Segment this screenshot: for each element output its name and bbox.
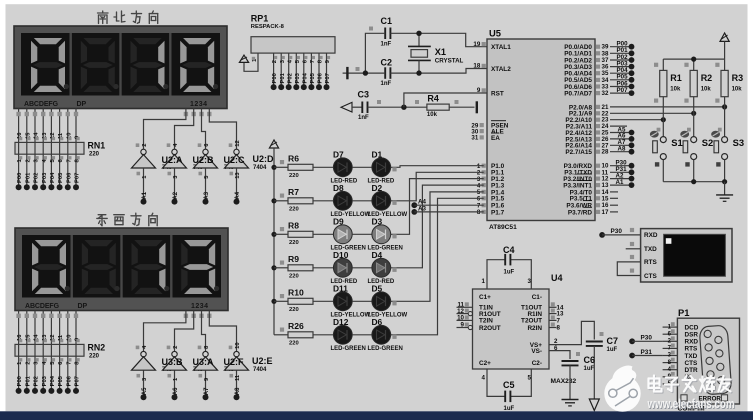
wire R7 to D8 — [313, 200, 333, 202]
LED D6 LED-GREEN — [368, 317, 403, 352]
svg-text:C2-: C2- — [532, 360, 542, 367]
watermark text dianzifashaoyou — [649, 376, 732, 393]
wire switch bottoms common — [663, 179, 727, 184]
svg-text:P31: P31 — [641, 349, 653, 356]
svg-text:RN1: RN1 — [88, 141, 106, 151]
svg-text:10k: 10k — [670, 87, 681, 93]
svg-text:A3: A3 — [204, 191, 210, 199]
svg-text:RN2: RN2 — [88, 343, 106, 353]
wire P30 to P1 RXD — [629, 335, 662, 345]
svg-text:S1: S1 — [671, 137, 682, 148]
svg-text:R6: R6 — [288, 154, 299, 164]
svg-text:P01: P01 — [25, 375, 31, 386]
svg-text:CRYSTAL: CRYSTAL — [435, 58, 464, 65]
svg-text:P07: P07 — [325, 73, 331, 83]
LED D4 LED-RED — [368, 250, 395, 285]
svg-text:10k: 10k — [732, 87, 743, 93]
label U2:E 7404 — [252, 356, 273, 373]
svg-text:S2: S2 — [702, 137, 713, 148]
svg-text:U2:F: U2:F — [224, 357, 245, 367]
wire R6 to D7 — [313, 166, 333, 168]
wire R26 to D12 — [313, 334, 333, 336]
svg-text:R2OUT: R2OUT — [479, 325, 501, 332]
svg-text:DSR: DSR — [685, 332, 699, 339]
svg-text:P30: P30 — [641, 335, 653, 342]
svg-text:P04: P04 — [50, 172, 56, 183]
svg-text:P03: P03 — [42, 375, 48, 386]
svg-text:9: 9 — [461, 322, 465, 329]
capacitor C7 1uF — [586, 332, 618, 353]
wire D8 to D2 — [352, 200, 372, 202]
svg-text:RST: RST — [491, 90, 504, 97]
pushbutton switch S3 — [711, 128, 744, 182]
LED D10 LED-RED — [331, 250, 358, 285]
svg-text:R7: R7 — [288, 187, 299, 197]
svg-text:P3.7/RD: P3.7/RD — [568, 209, 593, 216]
U5 P0 port net stubs P00-P07 — [610, 41, 634, 97]
svg-text:2: 2 — [173, 346, 179, 349]
svg-text:P1: P1 — [678, 307, 689, 318]
junction node C2-X1 — [416, 70, 421, 75]
svg-text:P01: P01 — [25, 172, 31, 183]
svg-text:4: 4 — [482, 375, 486, 382]
svg-text:220: 220 — [289, 307, 299, 313]
U5 P3.0-P3.3 net stubs P30 P31 A2 A1 — [610, 160, 634, 189]
svg-text:CTS: CTS — [685, 360, 699, 367]
svg-text:A8: A8 — [235, 387, 241, 395]
svg-text:U2:C: U2:C — [224, 155, 246, 165]
svg-text:P00: P00 — [17, 173, 23, 183]
power terminal above U2:D rail — [269, 140, 278, 148]
virtual terminal box — [641, 229, 732, 282]
mcu U5 AT89C51 body — [487, 28, 595, 231]
svg-text:U3:B: U3:B — [162, 357, 184, 367]
connector P1 COMPIM DB9 — [677, 307, 739, 413]
svg-text:10: 10 — [235, 342, 241, 348]
svg-text:RESPACK-8: RESPACK-8 — [251, 24, 285, 30]
svg-text:A7: A7 — [204, 387, 210, 395]
capacitor C3 1nF — [358, 89, 382, 121]
svg-text:T2OUT: T2OUT — [521, 318, 542, 325]
svg-text:P06: P06 — [66, 172, 72, 183]
wire LED row 3 to U5 P1.2 — [391, 179, 484, 239]
svg-text:P01: P01 — [280, 72, 286, 83]
svg-text:9: 9 — [477, 87, 481, 94]
U5 left pin numbers and pin squares — [471, 41, 485, 216]
svg-text:U2:E: U2:E — [252, 356, 273, 366]
wire D9 to D3 — [352, 233, 372, 235]
wire C2 right to XTAL2 — [390, 69, 486, 74]
wire LED row 5 to U5 P1.4 — [391, 192, 484, 306]
svg-text:19: 19 — [473, 41, 480, 48]
down arrow terminal below C7 — [589, 399, 599, 411]
svg-text:17: 17 — [602, 209, 609, 216]
wire LED row 1 to U5 P1.0 — [391, 166, 484, 172]
svg-text:U4: U4 — [551, 273, 563, 283]
svg-text:DTR: DTR — [685, 367, 699, 374]
svg-text:C1: C1 — [381, 16, 393, 26]
svg-text:C6: C6 — [584, 355, 596, 365]
7-segment display block DS1 (north-south) — [14, 26, 227, 109]
wire P2.1 (pin22) to S2 column — [610, 111, 696, 116]
wire C6 to ground — [569, 365, 571, 399]
inverter 7404 top row #2 (net A2) — [162, 143, 187, 205]
inverter 7404 bottom row #4 (net A8) — [224, 342, 249, 400]
LED D5 LED-YELLOW — [368, 283, 408, 318]
P1 pin stubs and names — [663, 322, 699, 387]
LED D2 LED-YELLOW — [368, 183, 408, 218]
RN2 top pin numbers 16-9 — [17, 334, 80, 343]
wire junction up to RST pin 9 — [404, 93, 487, 107]
svg-text:VS-: VS- — [531, 348, 542, 355]
svg-text:R8: R8 — [288, 221, 299, 231]
inverter 7404 bottom row #3 (net A7) — [193, 345, 218, 400]
svg-text:1234: 1234 — [190, 101, 208, 108]
junction node RST — [401, 105, 406, 110]
wire LED row 2 to U5 P1.1 — [391, 172, 484, 205]
svg-text:13: 13 — [235, 172, 241, 179]
resistor R26 220 — [288, 321, 313, 346]
capacitor C4 1uF — [503, 245, 515, 275]
wire D7 to D1 — [352, 166, 372, 168]
wire VS+ (pin2) to C7 — [549, 321, 594, 345]
svg-text:U2:D: U2:D — [253, 154, 275, 164]
svg-text:S3: S3 — [733, 137, 744, 148]
wire LED row 4 to U5 P1.3 — [391, 185, 484, 272]
LED D8 LED-YELLOW — [331, 183, 371, 218]
svg-text:P05: P05 — [310, 72, 316, 83]
capacitor C6 1uF — [562, 352, 596, 372]
wires R bottoms to switches — [663, 97, 724, 137]
svg-text:A3: A3 — [418, 205, 426, 212]
resistor R3 10k — [715, 63, 743, 103]
svg-text:A6: A6 — [173, 387, 179, 395]
wire P31 to P1 TXD — [629, 349, 662, 359]
svg-text:220: 220 — [89, 152, 100, 158]
svg-text:CTS: CTS — [644, 273, 658, 280]
resistor R6 220 — [288, 154, 313, 179]
wire P30 to terminal RXD — [599, 228, 640, 238]
svg-text:C5: C5 — [503, 380, 515, 390]
svg-text:P30: P30 — [611, 228, 623, 235]
svg-text:28: 28 — [602, 149, 609, 156]
svg-text:DP: DP — [78, 303, 88, 310]
svg-text:31: 31 — [471, 135, 478, 142]
svg-text:DP: DP — [77, 101, 87, 108]
svg-text:C7: C7 — [607, 336, 619, 346]
svg-text:A8: A8 — [618, 146, 626, 153]
svg-text:EA: EA — [491, 135, 500, 142]
wires U4 pin1-pin3 loop via C4 — [482, 260, 532, 289]
pushbutton switch S1 — [650, 128, 683, 182]
svg-text:U2:B: U2:B — [193, 155, 215, 165]
wire R9 to D10 — [313, 267, 333, 269]
resistor pack RP1 RESPACK-8 — [251, 14, 335, 54]
svg-text:7404: 7404 — [253, 367, 267, 373]
U5 P2.3 stub — [610, 125, 627, 127]
svg-text:P06: P06 — [66, 375, 72, 386]
svg-text:R10: R10 — [288, 288, 304, 298]
capacitor C5 1uF — [503, 380, 515, 412]
label North-South direction title (nan bei fang xiang) — [98, 11, 158, 24]
wires U4 pin4-pin5 loop via C5 — [482, 369, 532, 396]
svg-text:10k: 10k — [701, 87, 712, 93]
junction dots on supply rail — [271, 165, 276, 304]
resistor R8 220 — [288, 221, 313, 246]
wire D11 to D5 — [352, 300, 372, 302]
terminal bar right of R4 — [449, 101, 477, 113]
svg-text:P2.7/A15: P2.7/A15 — [565, 149, 592, 156]
svg-text:R26: R26 — [288, 321, 304, 331]
wire D10 to D4 — [352, 267, 372, 269]
svg-text:32: 32 — [602, 90, 609, 97]
svg-text:P05: P05 — [58, 375, 64, 386]
7-segment display block DS2 (east-west) — [15, 228, 228, 311]
label U2:D 7404 — [253, 154, 275, 171]
wire P2.2 (pin23) to S1 column — [610, 117, 666, 122]
svg-text:8: 8 — [557, 325, 561, 332]
ground below C6 — [562, 400, 579, 406]
svg-text:R2: R2 — [701, 73, 713, 83]
svg-text:2: 2 — [25, 362, 31, 365]
pushbutton switch S2 — [680, 128, 713, 182]
ground bottom right — [716, 182, 733, 202]
wire LED row 6 to U5 P1.5 — [391, 198, 484, 339]
wire VCC rail to R1 R2 R3 tops — [663, 57, 724, 71]
svg-text:T2IN: T2IN — [479, 318, 493, 325]
svg-text:X1: X1 — [435, 47, 446, 57]
wire R10 to D11 — [313, 300, 333, 302]
svg-text:AT89C51: AT89C51 — [489, 224, 517, 231]
wire rail to R9 — [274, 261, 288, 268]
svg-text:P04: P04 — [50, 375, 56, 386]
svg-text:220: 220 — [289, 240, 299, 246]
power terminal top right — [720, 33, 729, 59]
svg-text:220: 220 — [89, 354, 100, 360]
junction node C1/C2 — [363, 70, 368, 75]
svg-text:A5: A5 — [142, 387, 148, 395]
svg-text:A1: A1 — [616, 179, 624, 186]
svg-text:R1: R1 — [670, 73, 682, 83]
svg-text:R9: R9 — [288, 254, 299, 264]
svg-text:3: 3 — [528, 278, 532, 285]
wire rail to R8 — [274, 227, 288, 234]
svg-text:P02: P02 — [287, 73, 293, 83]
wire C1 right to XTAL1 — [390, 33, 486, 46]
capacitor C2 1nF — [356, 58, 393, 88]
U5 right pin numbers and pin squares — [596, 44, 609, 216]
wires display2 segment pins to RN2 — [16, 311, 78, 345]
svg-text:12: 12 — [235, 140, 241, 146]
resistor R9 220 — [288, 254, 313, 279]
svg-text:7: 7 — [66, 159, 72, 162]
svg-text:7: 7 — [557, 317, 561, 324]
wire D12 to D6 — [352, 334, 372, 336]
input terminal arrow at C3 — [341, 102, 362, 112]
svg-text:RXD: RXD — [685, 339, 699, 346]
svg-text:www.elecfans.com: www.elecfans.com — [647, 397, 735, 411]
svg-text:2: 2 — [142, 143, 148, 146]
svg-text:1nF: 1nF — [381, 42, 392, 48]
svg-text:P07: P07 — [617, 87, 629, 94]
vertical supply rail (U2:D / U2:E) — [273, 148, 275, 335]
svg-text:7: 7 — [310, 60, 316, 63]
svg-text:P07: P07 — [75, 376, 81, 386]
svg-text:5: 5 — [528, 375, 532, 382]
wires display2 digit pins 1-4 to inverters — [144, 311, 237, 352]
U4 right pins 14 13 7 8 — [549, 302, 564, 331]
svg-text:LED-GREEN: LED-GREEN — [368, 346, 403, 352]
svg-text:P02: P02 — [34, 376, 40, 386]
svg-text:18: 18 — [473, 63, 480, 70]
svg-text:1uF: 1uF — [504, 269, 515, 275]
U5 left pin names — [491, 44, 511, 216]
wires display1 digit pins 1-4 to inverters — [144, 109, 237, 150]
inverter 7404 bottom row #1 (net A5) — [132, 345, 156, 400]
resistor R4 10k — [415, 93, 459, 118]
svg-text:XTAL1: XTAL1 — [491, 44, 511, 51]
wire R8 to D9 — [313, 233, 333, 235]
svg-text:7: 7 — [66, 362, 72, 365]
LED D3 LED-GREEN — [368, 216, 403, 251]
svg-text:7404: 7404 — [253, 165, 267, 171]
bottom banner bar — [0, 411, 753, 420]
svg-text:P00: P00 — [17, 376, 23, 386]
svg-text:P02: P02 — [34, 173, 40, 183]
resistor R10 220 — [288, 288, 313, 313]
inverter 7404 bottom row #2 (net A6) — [162, 346, 187, 401]
U5 right pin names — [563, 44, 592, 216]
inverter 7404 top row #1 (net A1) — [132, 143, 156, 204]
svg-text:A2: A2 — [173, 191, 179, 199]
svg-text:ABCDEFG: ABCDEFG — [24, 101, 59, 108]
svg-text:LED-GREEN: LED-GREEN — [331, 346, 366, 352]
svg-text:R4: R4 — [427, 93, 439, 103]
svg-text:C1-: C1- — [532, 294, 542, 301]
U5 P3.4-P3.7 stubs — [610, 192, 618, 212]
LED D12 LED-GREEN — [331, 317, 366, 352]
U5 P2.4-P2.7 net stubs A5-A8 — [610, 126, 634, 154]
net stub A4 to U5 pin7 — [411, 199, 483, 209]
junction node C1-X1 — [416, 31, 421, 36]
svg-text:1uF: 1uF — [584, 366, 595, 372]
resistor network RN1 — [15, 141, 105, 158]
ic U4 MAX232 body — [473, 273, 577, 385]
svg-text:2: 2 — [25, 159, 31, 162]
svg-text:8: 8 — [477, 209, 481, 216]
LED D11 LED-YELLOW — [331, 283, 371, 318]
wire rail to R26 — [274, 328, 288, 335]
svg-text:P07: P07 — [75, 173, 81, 183]
svg-text:11: 11 — [235, 374, 241, 381]
wires RN2 to P00-P07 terminal dots — [16, 356, 81, 394]
ground terminal left of C2 — [343, 67, 386, 79]
wire C7 to arrow terminal — [593, 346, 595, 399]
svg-text:C1+: C1+ — [479, 294, 491, 301]
svg-text:TXD: TXD — [644, 246, 657, 253]
LED D7 LED-RED — [331, 149, 358, 184]
svg-text:1uF: 1uF — [504, 406, 515, 412]
svg-text:A4: A4 — [235, 191, 241, 199]
watermark url www.elecfans.com — [647, 397, 736, 412]
label East-West direction title (dong xi fang xiang) — [97, 213, 157, 226]
svg-text:10k: 10k — [427, 112, 438, 118]
svg-text:U3:A: U3:A — [193, 357, 215, 367]
resistor network RN2 — [15, 343, 105, 360]
svg-text:U2:A: U2:A — [162, 155, 184, 165]
svg-text:P05: P05 — [58, 172, 64, 183]
svg-text:C4: C4 — [503, 245, 515, 255]
svg-text:A1: A1 — [142, 191, 148, 199]
svg-text:220: 220 — [289, 206, 299, 212]
svg-text:220: 220 — [289, 340, 299, 346]
inverter 7404 top row #4 (net A4) — [224, 140, 249, 204]
svg-text:XTAL2: XTAL2 — [491, 66, 511, 73]
LED D9 LED-GREEN — [331, 216, 366, 251]
svg-text:R3: R3 — [732, 73, 744, 83]
svg-text:RXD: RXD — [644, 232, 658, 239]
wire P2.0 (pin21) to S3 column — [610, 104, 727, 109]
capacitor C1 1nF — [369, 16, 392, 48]
U4 inside pin names — [479, 294, 542, 367]
wire rail to R10 — [274, 294, 288, 301]
U4 left pins 11 12 10 9 — [457, 302, 473, 330]
svg-text:1nF: 1nF — [381, 81, 392, 87]
wire C1 left to C2 junction — [365, 33, 385, 73]
inverter 7404 top row #3 (net A3) — [193, 143, 218, 205]
svg-text:P06: P06 — [318, 72, 324, 83]
terminal TXD stub — [626, 242, 641, 249]
wire VS- (pin6) to C6 — [549, 345, 570, 359]
svg-text:P0.7/AD7: P0.7/AD7 — [564, 91, 592, 98]
resistor R7 220 — [288, 187, 313, 212]
svg-text:DCD: DCD — [685, 324, 699, 331]
svg-text:1: 1 — [482, 278, 486, 285]
svg-text:RTS: RTS — [685, 346, 699, 353]
svg-text:P04: P04 — [302, 72, 308, 83]
LED D1 LED-RED — [368, 149, 395, 184]
svg-text:R2IN: R2IN — [527, 325, 542, 332]
svg-text:220: 220 — [289, 173, 299, 179]
svg-text:C2: C2 — [381, 58, 393, 68]
crystal X1 — [408, 33, 464, 73]
svg-text:10: 10 — [457, 315, 464, 322]
wire C3 to R4 junction — [368, 106, 427, 108]
svg-text:RP1: RP1 — [251, 14, 269, 24]
wire terminal RTS to CTS loop — [617, 255, 640, 276]
svg-text:P1.7: P1.7 — [491, 209, 505, 216]
svg-text:2: 2 — [272, 60, 278, 63]
svg-text:MAX232: MAX232 — [551, 378, 577, 385]
watermark elecfans logo — [604, 365, 640, 411]
svg-text:U5: U5 — [489, 28, 501, 39]
wire rail to R7 — [274, 194, 288, 201]
wire rail to R6 — [274, 160, 288, 167]
svg-text:1uF: 1uF — [607, 347, 618, 353]
wires display1 segment pins to RN1 — [16, 109, 78, 143]
svg-text:ABCDEFG: ABCDEFG — [25, 303, 60, 310]
resistor R1 10k — [654, 63, 682, 103]
svg-text:220: 220 — [289, 273, 299, 279]
svg-text:P03: P03 — [42, 172, 48, 183]
svg-text:TXD: TXD — [685, 353, 698, 360]
resistor R2 10k — [684, 63, 712, 103]
svg-text:1234: 1234 — [191, 303, 209, 310]
svg-text:P00: P00 — [272, 73, 278, 83]
net stub A3 to U5 pin8 — [411, 205, 483, 215]
svg-text:1nF: 1nF — [358, 115, 369, 121]
svg-text:RTS: RTS — [644, 259, 658, 266]
